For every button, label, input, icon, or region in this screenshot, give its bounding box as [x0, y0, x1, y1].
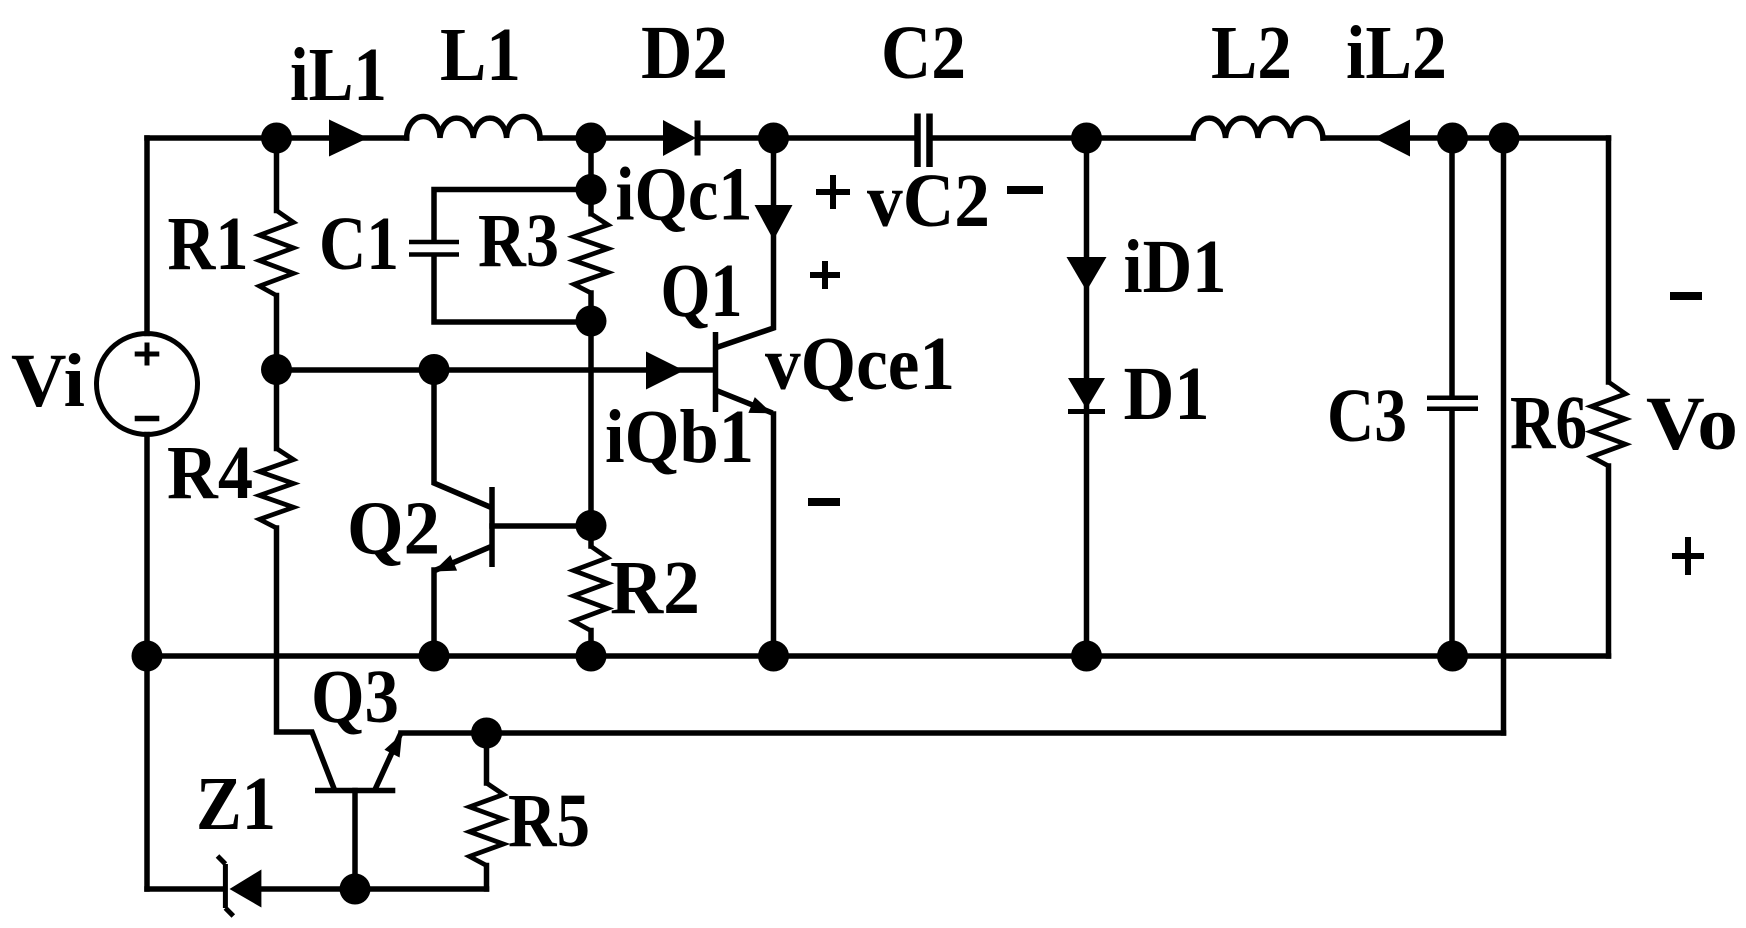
plus sign vQce1 — [810, 261, 840, 289]
wire L1 to D2 — [540, 135, 663, 141]
svg-text:R1: R1 — [168, 202, 249, 286]
wire Vi to top rail — [144, 138, 150, 334]
minus sign vC2 — [1007, 186, 1043, 194]
wire C2 to L2 — [933, 135, 1193, 141]
svg-text:Q2: Q2 — [347, 487, 440, 571]
svg-text:C2: C2 — [881, 11, 966, 95]
svg-text:D2: D2 — [641, 11, 728, 95]
wire node to C1R3 loop — [588, 138, 594, 190]
wire Q1 collector — [717, 138, 774, 348]
svg-text:vQce1: vQce1 — [765, 322, 955, 406]
svg-text:Q1: Q1 — [661, 249, 743, 333]
Vi minus sign — [135, 416, 160, 422]
wire Q3 emitter diagonal — [376, 735, 401, 789]
wire R4 top — [274, 370, 280, 449]
Vi plus sign — [135, 343, 160, 366]
transistor Q3 base bar — [315, 788, 395, 794]
wire loop bottom — [434, 256, 591, 322]
wire L2 to output corner — [1323, 135, 1609, 141]
current arrow iQc1 — [755, 205, 793, 240]
svg-text:vC2: vC2 — [867, 159, 990, 243]
svg-text:Z1: Z1 — [196, 762, 276, 846]
wire loop top — [434, 190, 591, 241]
wire Q3 emitter to node — [401, 730, 487, 736]
wire R3 bottom stub — [588, 293, 594, 321]
feedback vertical — [1501, 138, 1507, 733]
node rail R2 — [576, 641, 607, 672]
ground rail — [147, 653, 1609, 659]
svg-text:R2: R2 — [610, 546, 700, 630]
node top feedback — [1489, 123, 1520, 154]
current arrow iL1 — [329, 120, 368, 157]
diode D1 — [1068, 378, 1105, 409]
node top R1 — [261, 123, 292, 154]
capacitor C2 plates — [918, 114, 930, 168]
node rail C3 — [1437, 641, 1468, 672]
wire R6 top — [1606, 138, 1612, 382]
wire R1 top — [274, 138, 280, 211]
node top C1R3 — [576, 123, 607, 154]
minus sign Vo — [1670, 292, 1702, 300]
node rail Q1 — [758, 641, 789, 672]
node rail Q2 — [419, 641, 450, 672]
wire R6 bottom — [1606, 466, 1612, 656]
svg-text:C1: C1 — [319, 202, 399, 286]
wire R4 to Q3 collector — [277, 528, 335, 789]
current arrow iL2 — [1374, 120, 1410, 157]
wire Q2 emitter — [436, 547, 490, 570]
feedback wire — [487, 730, 1504, 736]
diode D2 — [663, 120, 696, 156]
wire top-left segment — [147, 135, 407, 141]
node base Q2col — [419, 354, 450, 385]
svg-text:R6: R6 — [1510, 381, 1587, 465]
svg-text:iQb1: iQb1 — [605, 395, 754, 479]
svg-text:C3: C3 — [1327, 374, 1407, 458]
wire R5 bottom stub — [484, 866, 490, 890]
svg-text:R4: R4 — [167, 431, 253, 515]
plus sign Vo — [1672, 537, 1704, 575]
svg-text:L1: L1 — [440, 13, 521, 97]
resistor R6 — [1592, 382, 1626, 466]
svg-text:iQc1: iQc1 — [616, 153, 753, 237]
wire Q1 emitter down — [771, 414, 777, 656]
resistor R2 — [574, 546, 608, 631]
capacitor C3 plates — [1427, 398, 1478, 409]
wire Q3 base — [352, 791, 358, 890]
node R5 emitter — [471, 718, 502, 749]
node Q3 base bottom — [340, 874, 371, 905]
node loop bottom — [576, 306, 607, 337]
svg-text:R5: R5 — [508, 779, 590, 863]
wire R3 top stub — [588, 190, 594, 214]
resistor R4 — [260, 449, 294, 529]
resistor R3 — [574, 214, 608, 293]
node top D1 — [1071, 123, 1102, 154]
wire bottom to zener — [147, 886, 223, 892]
wire R2 top stub — [588, 526, 594, 547]
wire base rail y=370 — [277, 367, 714, 373]
inductor L2 — [1193, 118, 1323, 138]
plus sign vC2 — [816, 175, 850, 209]
node top C3 — [1437, 123, 1468, 154]
transistor Q3 emitter arrowhead — [384, 734, 402, 758]
wire Q2 base — [492, 523, 591, 529]
capacitor C1 plates — [409, 242, 459, 255]
zener diode Z1 — [230, 870, 262, 908]
voltage source Vi circle — [97, 334, 198, 435]
svg-text:iL2: iL2 — [1346, 11, 1447, 95]
wire R1 bottom — [274, 296, 280, 370]
svg-text:iL1: iL1 — [290, 33, 387, 117]
svg-text:Vi: Vi — [11, 339, 85, 423]
node top Q1 collector — [758, 123, 789, 154]
node rail Vi — [132, 641, 163, 672]
resistor R1 — [260, 211, 294, 296]
svg-text:iD1: iD1 — [1124, 225, 1227, 309]
wire Q1 emitter — [717, 391, 771, 413]
svg-text:R3: R3 — [478, 199, 559, 283]
minus sign vQce1 — [808, 498, 840, 506]
inductor L1 — [407, 117, 540, 138]
wire R2 bottom stub — [588, 631, 594, 657]
node rail D1 — [1071, 641, 1102, 672]
wire D2 to C2 — [698, 135, 915, 141]
transistor Q1 emitter arrowhead — [748, 397, 772, 413]
svg-text:D1: D1 — [1124, 352, 1210, 436]
wire C3 top — [1449, 138, 1455, 396]
wire zener to R5 corner — [261, 886, 486, 892]
wire C3 bottom — [1449, 411, 1455, 656]
current arrow iQb1 on base wire — [646, 352, 684, 390]
wire D1 branch — [1084, 138, 1090, 656]
wire Vi to bottom rails — [144, 435, 150, 890]
node loop top — [576, 174, 607, 205]
current arrow iD1 — [1067, 257, 1107, 291]
node base R1R4 — [261, 354, 292, 385]
transistor Q1 base bar — [713, 332, 719, 412]
wire Q2 collector — [434, 370, 490, 507]
node Q2base R2 — [576, 510, 607, 541]
transistor Q2 base bar — [489, 487, 495, 567]
wire R5 top stub — [484, 733, 490, 783]
resistor R5 — [470, 783, 504, 866]
transistor Q2 emitter arrowhead — [434, 555, 458, 572]
wire R3node to R2 — [588, 321, 594, 526]
svg-text:Vo: Vo — [1646, 382, 1738, 466]
wire Q2 emitter down — [431, 570, 437, 656]
svg-text:Q3: Q3 — [311, 655, 399, 739]
svg-text:L2: L2 — [1211, 11, 1292, 95]
